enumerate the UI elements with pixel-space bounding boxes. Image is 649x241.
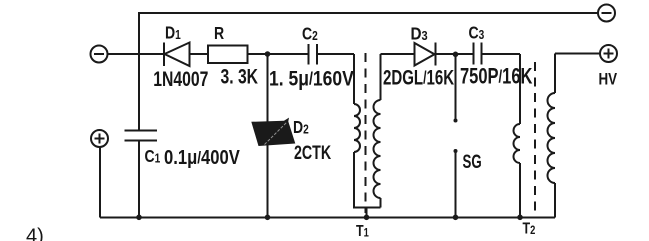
svg-text:750P/16K: 750P/16K (460, 64, 532, 89)
svg-text:R: R (214, 23, 224, 43)
svg-text:2DGL/16K: 2DGL/16K (383, 65, 455, 89)
svg-text:4): 4) (26, 226, 44, 241)
svg-text:2CTK: 2CTK (294, 142, 332, 164)
svg-text:3. 3K: 3. 3K (221, 64, 259, 88)
svg-text:1. 5μ/160V: 1. 5μ/160V (269, 67, 354, 91)
svg-text:0.1μ/400V: 0.1μ/400V (164, 145, 240, 168)
svg-text:HV: HV (599, 70, 618, 89)
svg-text:1N4007: 1N4007 (153, 67, 208, 91)
svg-text:SG: SG (463, 152, 482, 173)
